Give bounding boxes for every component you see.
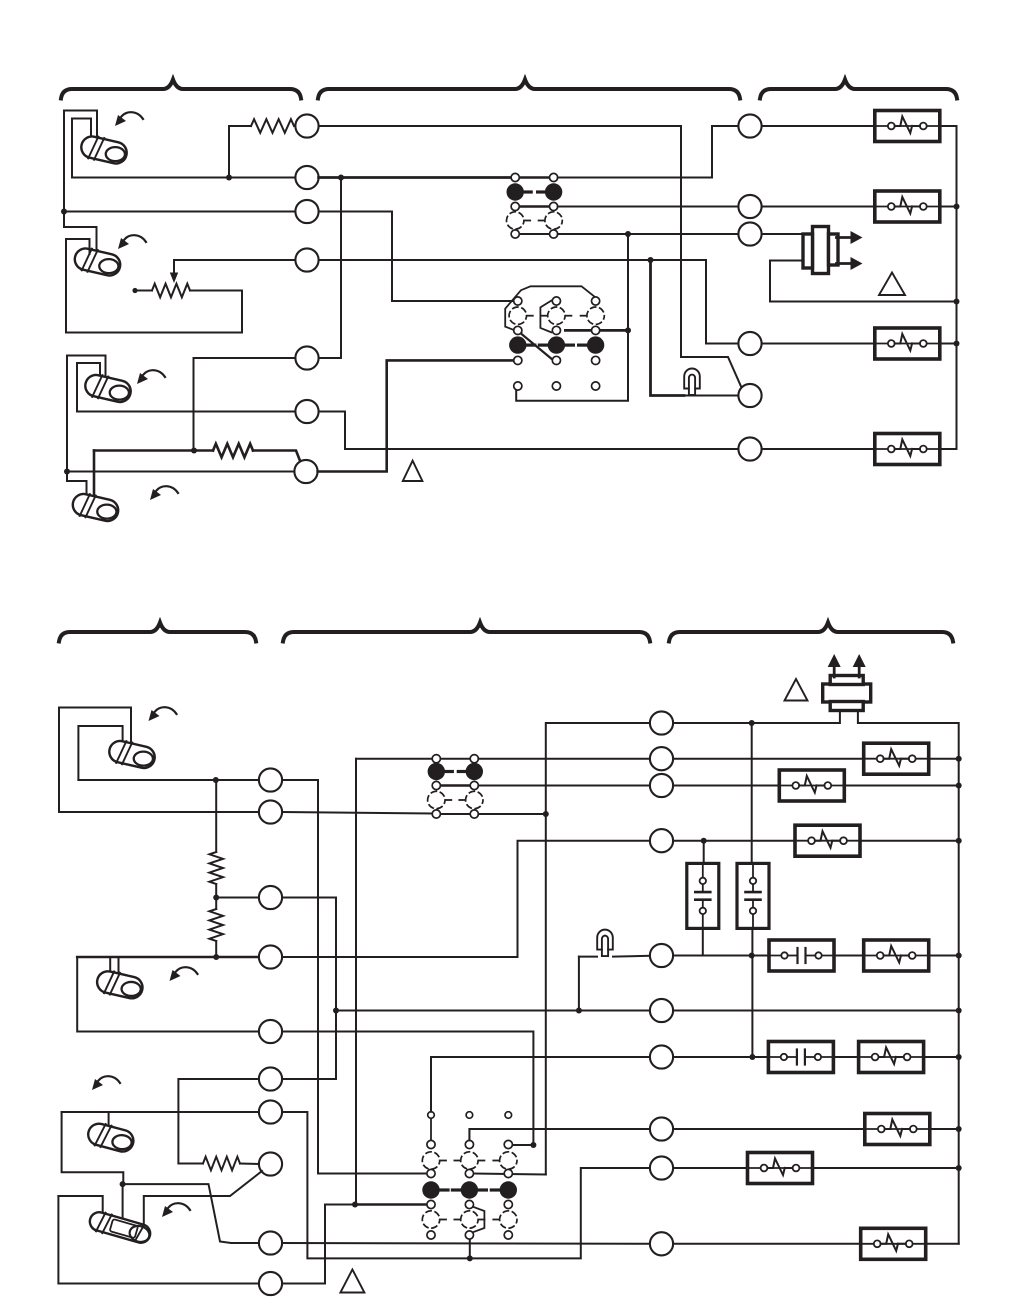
resistor RB3 (203, 1157, 240, 1171)
brace relay panel section (top right) (760, 80, 957, 99)
junction bus b6 (956, 1054, 962, 1060)
relay coil K6 (779, 770, 844, 801)
wire B1 inner loop (78, 726, 122, 780)
terminal T2 (295, 166, 318, 189)
wire node diagonal to BT9 (123, 1184, 259, 1243)
wire B3 electrode stub (108, 1112, 110, 1131)
relay coil K5 (864, 743, 929, 774)
junction bus b7 (956, 1126, 962, 1132)
contactor CC2 (768, 1042, 833, 1073)
mercury switch S1 (79, 133, 129, 166)
relay coil K10 (865, 1114, 930, 1145)
wire col3 stub (513, 1144, 534, 1146)
junction node at T2 wire (226, 175, 232, 181)
wire BT10 right to node (282, 1205, 355, 1284)
wire vertical 356 down (355, 759, 357, 1205)
terminal T4 (295, 248, 318, 271)
wire K1 to bus (940, 126, 957, 449)
wire BT5 row to col3 (282, 1032, 533, 1146)
terminal M2 (650, 747, 673, 770)
terminal R1 (738, 114, 761, 137)
junction bus TR1 return (954, 299, 960, 305)
resistor RB2 (209, 909, 223, 941)
wire BT8 diagonal to B4 (144, 1171, 262, 1232)
junction heavy row to col1 (352, 1202, 358, 1208)
wire K10 to bus (930, 1128, 959, 1130)
wire M7 to CC2 (673, 1056, 768, 1058)
wire M1 row to TR2 (673, 710, 840, 723)
wire R2 to K2 (762, 206, 875, 208)
terminal T7 (294, 460, 317, 483)
wire CC1 to K8 (834, 955, 864, 957)
wire R4 to K3 (762, 343, 875, 345)
wire B1 outer loop (59, 708, 131, 813)
wire K2 to bus (940, 206, 957, 208)
arrowhead potentiometer wiper (170, 273, 178, 284)
arrow S3 rotation (137, 370, 165, 384)
wire T4 row to R4 (319, 260, 739, 344)
wire K7 to bus (860, 840, 959, 842)
wire M8 to K10 (673, 1128, 865, 1130)
wire tap to BT3 (216, 897, 259, 899)
mercury switch S2 (72, 245, 122, 278)
wire col2 bottom drop (469, 1239, 471, 1258)
resistor R1 (heat anticipator) (251, 119, 294, 133)
wire heavy to col1 row6 (355, 1203, 427, 1206)
wire BT2 to CG3 row5 (282, 812, 432, 814)
terminal M10 (650, 1232, 673, 1255)
transformer TR1 (803, 227, 863, 274)
wire S1 outer electrode loop (64, 111, 97, 212)
arrow S4 rotation (150, 486, 178, 500)
wire T7 to fan switch (318, 360, 514, 471)
junction T4 row (648, 257, 654, 263)
wire CG1 row1 to R1 (558, 126, 739, 178)
wire pot left stub (137, 290, 152, 292)
junction col3 stub (530, 1142, 536, 1148)
wire lamp to R5 (676, 395, 738, 397)
wire CC2 to K9 (834, 1056, 859, 1058)
terminal BT5 (259, 1020, 282, 1043)
wire K8 to bus (929, 955, 959, 957)
contact group CG4 (system switch) (422, 1112, 517, 1239)
wire S3 outer left vertical (66, 356, 68, 472)
wire CG1 row5 to R3 (558, 233, 739, 235)
wire K12 to bus (926, 1243, 959, 1245)
wire R6 to K4 (762, 448, 875, 450)
mercury switch B2 (95, 968, 145, 1001)
wire resistor row left (94, 449, 213, 452)
wire CG1 row3 to R2 (558, 206, 739, 208)
mercury switch B4 (87, 1209, 152, 1246)
wire pot to S2 enclosure (66, 239, 242, 333)
wire M10 to K12 (673, 1243, 861, 1245)
wire T2 to contact A1 (heavy) (319, 176, 511, 179)
terminal M4 (650, 829, 673, 852)
contactor CC1 (769, 940, 834, 971)
wire K6 to bus (844, 785, 958, 787)
wire T7 row left (67, 471, 294, 473)
arrow S2 rotation (118, 235, 146, 249)
junction col2 drop (467, 1255, 473, 1261)
relay coil K9 (859, 1042, 924, 1073)
terminal BT10 (259, 1272, 282, 1295)
mercury switch B1 (107, 738, 157, 771)
junction bus b4 (956, 953, 962, 959)
wire T3 to fan contact (319, 212, 514, 302)
terminal T5 (295, 346, 318, 369)
relay coil K7 (795, 825, 860, 856)
terminal BT7 (259, 1100, 282, 1123)
junction bus b5 (956, 1008, 962, 1014)
terminal M1 (650, 711, 673, 734)
wire resistor chain bottom (215, 941, 217, 957)
terminal BT6 (259, 1067, 282, 1090)
junction cap1 top (701, 838, 707, 844)
arrow B2 rotation (170, 967, 198, 981)
wire S1 to T2 row (72, 177, 295, 179)
junction M7 row (749, 1054, 755, 1060)
contact group CG1 (heat relay contacts) (507, 173, 563, 238)
wire M4 left leg (282, 841, 650, 957)
wire B2 loop to BT5 (77, 957, 259, 1032)
relay coil K2 (875, 191, 940, 222)
junction M6 row lamp drop (576, 1008, 582, 1014)
resistor R2 (cooling anticipator) (213, 444, 253, 458)
junction TR2 row (749, 720, 755, 726)
wire col2 to M8 row (469, 1129, 649, 1140)
junction B3/B4 node (120, 1181, 126, 1187)
wire B4 heavy row (77, 956, 259, 959)
wire K5 to bus (929, 758, 959, 760)
wire S3 outer loop (67, 356, 106, 381)
wire B1 to BT1 (78, 779, 259, 781)
wire T7 node jog to S4 (67, 472, 87, 503)
wire T3 row from node (64, 211, 294, 213)
contact group CG3 (cool relay contacts) (428, 755, 483, 819)
wire BT3 to vertical 336 (282, 898, 336, 1080)
wire lamp to M5 (613, 955, 650, 958)
brace subbase section (bottom middle) (283, 623, 650, 642)
terminal M9 (650, 1156, 673, 1179)
wire lamp drop to M6 row (578, 957, 580, 1011)
mercury switch B3 (86, 1120, 137, 1155)
terminal BT9 (259, 1231, 282, 1254)
terminal R6 (738, 437, 761, 460)
wire B3 loop to node (62, 1112, 124, 1184)
junction bus b8 (956, 1165, 962, 1171)
mercury switch S4 (70, 491, 120, 524)
wire M9 to K11 (673, 1167, 747, 1169)
wire M2 to K5 (673, 758, 864, 760)
brace heating system section (top left) (61, 80, 301, 99)
lamp L1 (top) (684, 369, 700, 396)
wire BT7 right to bottom row (282, 1112, 650, 1258)
potentiometer P1 (152, 284, 190, 298)
terminal M7 (650, 1045, 673, 1068)
wire T6 row (77, 411, 294, 413)
wire T5 left leg (194, 358, 295, 451)
wire T1 to vertical (319, 126, 742, 388)
wire M3 to K6 (673, 785, 779, 787)
terminal BT8 (259, 1152, 282, 1175)
lamp L2 (bottom) (597, 930, 613, 956)
relay coil K12 (861, 1228, 926, 1259)
wire S1 inner electrode loop (72, 119, 91, 178)
terminal BT1 (259, 768, 282, 791)
brace heating-cooling tstat section (bottom left) (59, 623, 256, 642)
wire K3 to bus (940, 343, 957, 345)
arrow B1 rotation (149, 707, 177, 721)
wire B4 enclosure top (58, 1196, 102, 1218)
triangle note 1 (879, 273, 905, 296)
capacitor C1 (687, 863, 719, 928)
triangle note 3 (785, 679, 808, 701)
mercury switch S3 (83, 372, 133, 405)
transformer TR2 (823, 654, 871, 711)
brace system section (bottom right) (669, 623, 953, 642)
wire M6 row (336, 1010, 650, 1012)
triangle note 4 (340, 1270, 364, 1293)
wire node to B4 capsule (122, 1184, 124, 1225)
wire heavy drop to lamp row (651, 260, 685, 396)
wire S1 node down to S2 (64, 212, 97, 254)
wire K11 to bus (813, 1167, 959, 1169)
wire node T2 up to resistor (229, 126, 251, 178)
wire resistor to BT8 (240, 1163, 259, 1166)
wire BT9 row to M10 (282, 1242, 650, 1245)
junction M6 row at 336 (333, 1008, 339, 1014)
wire M5 row (673, 955, 769, 957)
wire BT7 row (62, 1111, 259, 1113)
terminal BT4 (259, 945, 282, 968)
wire M4 right to K box (673, 840, 794, 842)
terminal R2 (738, 195, 761, 218)
junction resistor row (191, 448, 197, 454)
contact group CG2 (fan switch) (505, 286, 628, 390)
brace thermostat section (top middle) (318, 80, 740, 99)
terminal R3 (738, 222, 761, 245)
terminal dot potentiometer left (132, 288, 137, 293)
junction bus K2 (954, 204, 960, 210)
wire B4 enclosure left (58, 1196, 259, 1284)
wire TR2 to bus (858, 710, 959, 1244)
junction T7 row (64, 469, 70, 475)
wire col1 top to M7 (431, 1057, 650, 1112)
junction M5 row (749, 953, 755, 959)
wire C1 bottom (702, 928, 704, 955)
junction BT1 row (213, 777, 219, 783)
wire lamp row (579, 956, 597, 958)
terminal T3 (295, 200, 318, 223)
relay coil K8 (864, 940, 929, 971)
resistor RB1 (209, 852, 223, 884)
wire K9 to bus (924, 1056, 959, 1058)
wire T6 to R6 row (319, 412, 739, 450)
relay coil K3 (875, 328, 940, 359)
wire C1 top (703, 841, 705, 864)
wire K4 to bus (940, 448, 957, 450)
wire BT1 down to contact row4 (282, 780, 427, 1174)
junction bus b1 (956, 756, 962, 762)
wire CG3 row1 to M2 (478, 758, 649, 760)
wire BT6 left leg (178, 1079, 259, 1164)
wire C2 lower vertical (751, 928, 753, 1057)
triangle note 2 (403, 461, 423, 481)
wire B1 outer to BT2 row (59, 811, 259, 813)
junction row5 at vertical (625, 231, 631, 237)
junction row5 node (543, 811, 549, 817)
wire M2 row left segment (356, 758, 432, 760)
terminal R4 (738, 332, 761, 355)
junction heavy contact line (625, 327, 631, 333)
wire C2 vertical (751, 723, 753, 863)
terminal R5 (738, 384, 761, 407)
wire resistor to T7 (253, 451, 301, 463)
terminal BT2 (259, 800, 282, 823)
junction resistor tap (213, 895, 219, 901)
wire 545 vertical to col2 row4 (474, 1174, 546, 1175)
wire T4 to potentiometer wiper (174, 260, 294, 272)
terminal M3 (650, 774, 673, 797)
arrow B4 rotation (162, 1203, 190, 1217)
wire TR1 return to bus (770, 261, 957, 302)
wire R1 to K1 (762, 125, 875, 127)
capacitor C2 (737, 863, 769, 928)
junction bus K3 (954, 341, 960, 347)
arrow B3 rotation (92, 1076, 120, 1090)
wire CG3 row5 to node (478, 813, 545, 815)
wire M6 to bus (673, 1010, 959, 1012)
terminal T1 (295, 114, 318, 137)
terminal BT3 (259, 886, 282, 909)
arrow S1 rotation (115, 112, 143, 126)
wire S3 inner loop (77, 363, 100, 412)
junction B4 row (213, 954, 219, 960)
wire T5 to T2 node (319, 178, 341, 359)
junction T2 heavy row (338, 175, 344, 181)
relay coil K11 (748, 1153, 813, 1184)
terminal M5 (650, 944, 673, 967)
relay coil K1 (875, 111, 940, 142)
terminal T6 (295, 400, 318, 423)
wire resistor chain top (215, 780, 217, 852)
wire B2 electrode stub 1 (109, 957, 111, 977)
junction bus b3 (956, 838, 962, 844)
terminal M6 (650, 999, 673, 1022)
wire S4 right electrode drop (93, 451, 96, 501)
wire B2 electrode stub 2 (118, 957, 120, 979)
wire resistor chain mid (215, 884, 217, 909)
wire vertical 628 down (516, 234, 628, 401)
relay coil K4 (875, 434, 940, 465)
wire M1 left vertical (546, 723, 650, 1175)
terminal M8 (650, 1117, 673, 1140)
junction node on T3 row (61, 209, 67, 215)
junction bus b2 (956, 783, 962, 789)
wire CG3 row3 to M3 (478, 785, 649, 787)
wire R3 to TR1 (762, 233, 803, 235)
